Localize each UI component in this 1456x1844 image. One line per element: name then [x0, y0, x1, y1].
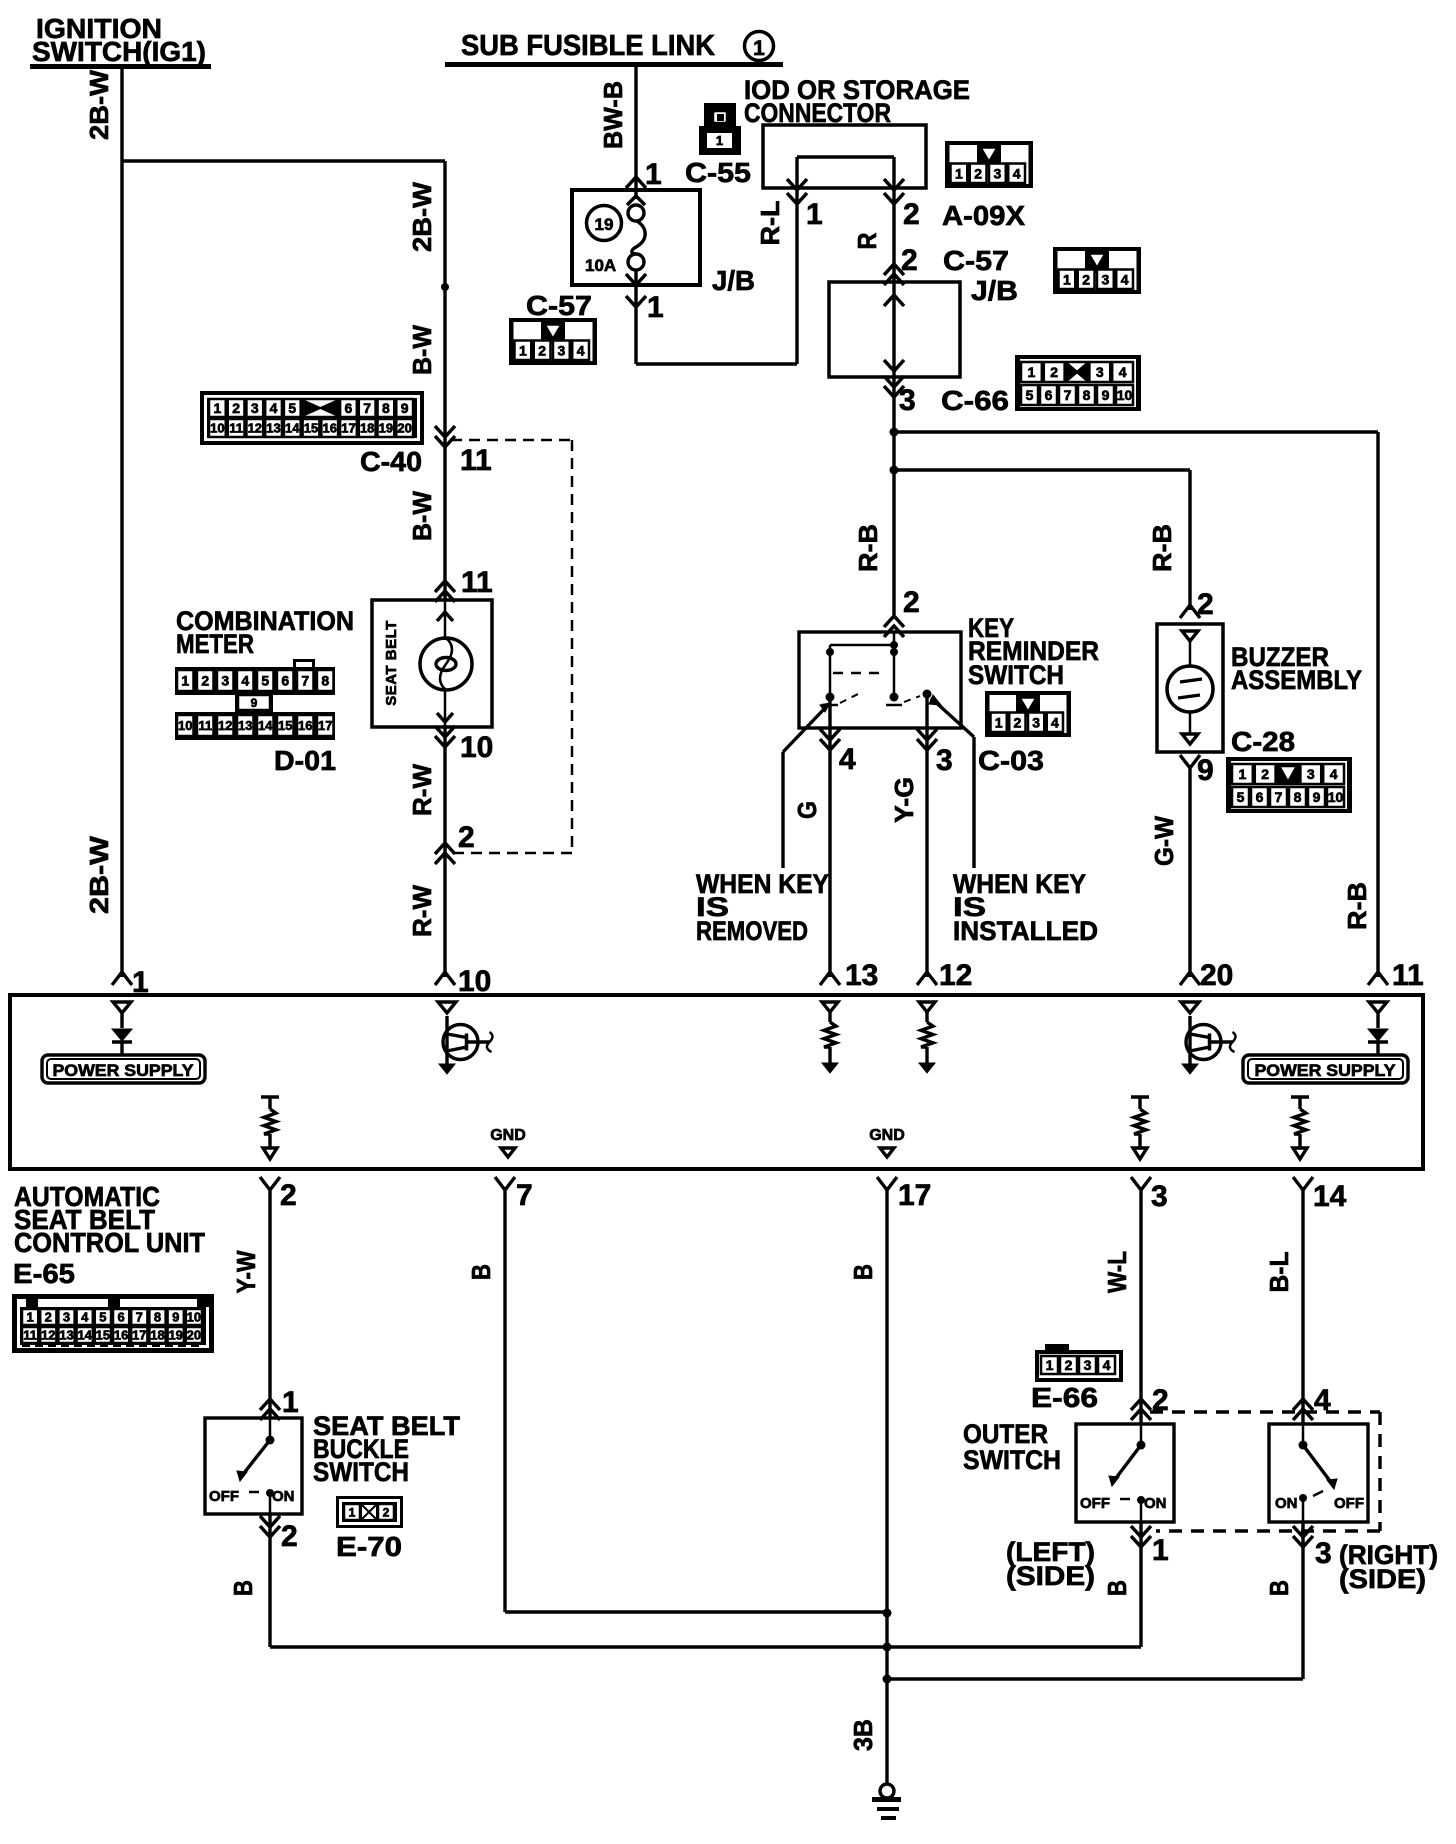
- svg-text:13: 13: [845, 959, 878, 992]
- svg-text:6: 6: [1045, 387, 1053, 403]
- svg-text:19: 19: [595, 215, 614, 234]
- svg-text:4: 4: [270, 400, 278, 416]
- svg-text:1: 1: [1028, 364, 1036, 380]
- svg-text:11: 11: [1392, 959, 1424, 992]
- wire label 2B-W (bottom): [84, 835, 114, 914]
- J/B fuse box: [572, 190, 700, 285]
- control unit pin 7 fork and wire B: [495, 1177, 888, 1612]
- svg-text:E-66: E-66: [1031, 1382, 1098, 1413]
- transistor inside control unit (right): [1181, 1002, 1236, 1074]
- svg-text:1: 1: [647, 291, 664, 324]
- svg-text:9: 9: [251, 696, 258, 710]
- wire label R-W (lower): [407, 885, 437, 937]
- dashed linkage between outer switches: [1150, 1412, 1380, 1531]
- svg-text:ON: ON: [1275, 1495, 1298, 1512]
- svg-text:BW-B: BW-B: [598, 81, 628, 149]
- svg-text:3: 3: [557, 342, 565, 358]
- wire label Y-G: [889, 777, 919, 823]
- wire label R: [852, 232, 882, 249]
- branch wire to buzzer R-B: [894, 470, 1190, 610]
- resistor pin 12 inside control unit: [919, 1002, 935, 1073]
- svg-text:1: 1: [753, 37, 765, 60]
- svg-text:11: 11: [460, 444, 492, 477]
- wire label 2B-W (top): [84, 70, 114, 140]
- svg-text:3: 3: [221, 673, 229, 689]
- wire label R-W (upper): [407, 764, 437, 816]
- svg-text:2B-W: 2B-W: [407, 182, 437, 252]
- svg-text:R-W: R-W: [407, 764, 437, 816]
- svg-text:10: 10: [178, 718, 192, 733]
- svg-text:3: 3: [1096, 364, 1104, 380]
- svg-text:SWITCH: SWITCH: [968, 660, 1064, 690]
- wire label R-B (right): [1342, 882, 1372, 930]
- wire label 3B: [848, 1719, 878, 1751]
- svg-text:GND: GND: [869, 1127, 905, 1144]
- terminal fork pin 13 into control unit: [820, 959, 878, 992]
- wire label R-L: [755, 200, 785, 245]
- svg-text:2: 2: [280, 1179, 297, 1212]
- svg-text:17: 17: [341, 421, 355, 436]
- svg-text:1: 1: [282, 1386, 299, 1419]
- connector C-66 designator: [941, 385, 1009, 416]
- svg-text:3B: 3B: [848, 1719, 878, 1751]
- connector C-55 designator: [685, 157, 751, 188]
- svg-text:C-28: C-28: [1231, 726, 1295, 757]
- wire label Y-W: [231, 1250, 261, 1293]
- left outer switch box: [1076, 1424, 1174, 1522]
- resistor pin 13 inside control unit: [822, 1002, 838, 1073]
- svg-text:SWITCH(IG1): SWITCH(IG1): [32, 36, 206, 67]
- resistor below power supply (left): [261, 1097, 279, 1159]
- svg-text:2: 2: [1082, 271, 1090, 287]
- connector E-70 designator: [336, 1531, 402, 1562]
- wire from right outer switch to ground wire: [887, 1677, 1303, 1680]
- C-40 crossing arrows pin 11: [435, 426, 492, 600]
- svg-text:B: B: [1264, 1580, 1294, 1596]
- svg-text:REMOVED: REMOVED: [696, 916, 808, 946]
- svg-text:B: B: [1102, 1580, 1132, 1596]
- svg-text:B-W: B-W: [407, 325, 437, 375]
- svg-text:10: 10: [187, 1310, 201, 1325]
- svg-text:C-57: C-57: [526, 290, 592, 321]
- svg-text:10A: 10A: [585, 256, 616, 275]
- svg-text:2: 2: [45, 1310, 52, 1325]
- wire label B (pin 17): [848, 1264, 878, 1280]
- control unit pin 2 fork and wire Y-W: [260, 1177, 297, 1398]
- svg-text:3: 3: [1307, 766, 1315, 782]
- svg-text:5: 5: [99, 1310, 106, 1325]
- wire label R-B (key reminder): [853, 524, 883, 572]
- left outer switch pin 2 arrows: [1131, 1384, 1169, 1424]
- svg-text:C-57: C-57: [943, 245, 1009, 276]
- sub fusible link label: [445, 30, 783, 67]
- svg-text:C-66: C-66: [941, 385, 1009, 416]
- arrow and pin 1 at J/B fuse top: [626, 158, 662, 205]
- svg-text:OFF: OFF: [209, 1488, 239, 1505]
- diode inside control unit (left): [112, 1002, 132, 1056]
- buzzer terminal fork pin 9 below box: [1180, 754, 1214, 977]
- svg-text:2: 2: [383, 1505, 390, 1519]
- svg-text:2: 2: [903, 198, 920, 231]
- svg-text:9: 9: [401, 400, 409, 416]
- key reminder switch internals: [822, 632, 932, 705]
- connector A-09X graphic: [945, 141, 1033, 188]
- wire label B-L: [1264, 1251, 1294, 1292]
- svg-text:3: 3: [1032, 714, 1040, 730]
- svg-text:3: 3: [63, 1310, 70, 1325]
- wire from buckle switch and left outer switch to ground wire: [270, 1645, 1141, 1648]
- svg-text:W-L: W-L: [1102, 1251, 1132, 1293]
- key reminder right wiper (when key installed): [929, 695, 974, 868]
- terminal fork pin 11 into control unit (right): [1368, 959, 1424, 992]
- svg-text:7: 7: [1064, 387, 1072, 403]
- svg-text:7: 7: [1275, 789, 1283, 805]
- svg-text:18: 18: [150, 1328, 164, 1343]
- key reminder switch box: [799, 632, 961, 728]
- buckle switch pin 1 arrows: [260, 1386, 299, 1420]
- pin 1 label of IOD connector: [806, 198, 823, 231]
- svg-text:11: 11: [23, 1328, 37, 1343]
- diode inside control unit (right): [1368, 1002, 1388, 1056]
- arrow and pin 1 at J/B fuse bottom: [626, 274, 664, 324]
- buckle switch pin 2 arrows: [260, 1514, 298, 1647]
- connector E-65 graphic: [12, 1294, 214, 1353]
- wire R-L from IOD box pin 1 down: [787, 157, 807, 364]
- svg-text:ASSEMBLY: ASSEMBLY: [1231, 665, 1362, 695]
- svg-text:8: 8: [1294, 789, 1302, 805]
- right outer switch pin 3 arrows: [1293, 1522, 1332, 1679]
- svg-text:12: 12: [939, 959, 972, 992]
- svg-text:20: 20: [397, 421, 411, 436]
- key reminder pin 4 wire down (G): [820, 700, 856, 977]
- arrow pin 2 into J/B (C-57): [884, 244, 918, 285]
- resistor above pin 14: [1291, 1097, 1309, 1159]
- pin 2 label of IOD connector: [903, 198, 920, 231]
- svg-text:2: 2: [903, 586, 920, 619]
- svg-text:11: 11: [198, 718, 212, 733]
- connector D-01 graphic: [175, 659, 335, 740]
- svg-text:12: 12: [218, 718, 232, 733]
- svg-text:1: 1: [1063, 271, 1071, 287]
- svg-text:1: 1: [716, 133, 723, 148]
- svg-text:7: 7: [301, 673, 309, 689]
- connector C-03 designator: [978, 745, 1044, 776]
- svg-text:1: 1: [181, 673, 189, 689]
- svg-text:20: 20: [187, 1328, 201, 1343]
- connector C-40 designator: [360, 446, 422, 477]
- svg-text:B: B: [466, 1264, 496, 1280]
- circled 1 after sub fusible link: [745, 32, 774, 61]
- GND label (left): [490, 1127, 526, 1157]
- svg-text:15: 15: [304, 421, 318, 436]
- svg-text:1: 1: [26, 1310, 33, 1325]
- svg-text:1: 1: [1239, 766, 1247, 782]
- svg-text:9: 9: [1197, 754, 1214, 787]
- J/B label for fuse box: [712, 265, 755, 296]
- connector C-66 graphic: [1015, 355, 1141, 411]
- svg-text:4: 4: [1103, 1357, 1111, 1373]
- svg-text:B-L: B-L: [1264, 1251, 1294, 1292]
- svg-text:5: 5: [1237, 789, 1245, 805]
- svg-text:B-W: B-W: [407, 491, 437, 541]
- svg-text:1: 1: [1046, 1357, 1054, 1373]
- wire 2B-W from ignition switch down to control unit pin 1: [120, 69, 123, 977]
- svg-text:16: 16: [298, 718, 312, 733]
- IOD or storage connector label: [744, 75, 970, 128]
- wire label G: [792, 801, 822, 819]
- svg-text:17: 17: [318, 718, 332, 733]
- combination meter label: [176, 606, 354, 659]
- automatic seat belt control unit label: [14, 1181, 205, 1258]
- svg-text:Y-W: Y-W: [231, 1250, 261, 1293]
- key reminder left wiper (when key removed): [783, 703, 830, 868]
- fuse number 19 circled: [587, 206, 622, 241]
- buzzer assembly label: [1231, 642, 1362, 695]
- svg-text:6: 6: [117, 1310, 124, 1325]
- svg-text:G: G: [792, 801, 822, 819]
- svg-text:9: 9: [1313, 789, 1321, 805]
- seat belt buckle switch box: [205, 1418, 302, 1514]
- junction wire from C-66 down with branches: [890, 428, 899, 616]
- buzzer assembly box: [1157, 624, 1223, 752]
- connector E-66 graphic: [1035, 1344, 1123, 1382]
- svg-text:2: 2: [1197, 588, 1214, 621]
- connector E-66 designator: [1031, 1382, 1098, 1413]
- connector E-70 graphic: [336, 1496, 403, 1528]
- connector A-09X designator: [942, 200, 1025, 231]
- svg-text:ON: ON: [272, 1488, 295, 1505]
- key reminder switch label: [968, 613, 1099, 690]
- IOD connector box: [763, 125, 926, 188]
- automatic seat belt control unit box E-65: [10, 995, 1423, 1169]
- svg-text:3: 3: [1084, 1357, 1092, 1373]
- key reminder pin 3 wire down (Y-G): [917, 694, 953, 977]
- J/B box 2: [829, 282, 960, 377]
- svg-text:G-W: G-W: [1149, 816, 1179, 866]
- svg-text:GND: GND: [490, 1127, 526, 1144]
- right outer switch internals: [1275, 1424, 1364, 1522]
- svg-text:8: 8: [382, 400, 390, 416]
- right outer switch box: [1269, 1424, 1368, 1522]
- svg-text:17: 17: [898, 1179, 931, 1212]
- svg-text:B: B: [848, 1264, 878, 1280]
- svg-text:1: 1: [519, 342, 527, 358]
- svg-text:12: 12: [41, 1328, 55, 1343]
- svg-text:6: 6: [1256, 789, 1264, 805]
- wire label R-B (buzzer): [1147, 524, 1177, 572]
- svg-text:B: B: [228, 1580, 258, 1596]
- buzzer terminal fork pin 2: [1180, 588, 1214, 621]
- svg-text:8: 8: [321, 673, 329, 689]
- control unit pin 14 fork and wire B-L: [1293, 1177, 1347, 1398]
- svg-text:14: 14: [77, 1328, 92, 1343]
- ignition switch (IG1) label: [30, 13, 211, 69]
- svg-text:4: 4: [1121, 271, 1129, 287]
- svg-text:2: 2: [232, 400, 240, 416]
- right outer switch pin 4 arrows: [1293, 1384, 1331, 1424]
- svg-text:OFF: OFF: [1080, 1495, 1110, 1512]
- wire label G-W: [1149, 816, 1179, 866]
- left outer switch internals: [1080, 1424, 1167, 1522]
- transistor inside control unit (left): [438, 1002, 493, 1074]
- wire label B (pin 7): [466, 1264, 496, 1280]
- svg-text:19: 19: [379, 421, 393, 436]
- terminal fork pin 1 into control unit: [112, 966, 149, 999]
- buzzer symbol: [1167, 631, 1213, 744]
- arrows pin 10 out of combination meter: [435, 726, 493, 977]
- svg-text:3: 3: [1315, 1537, 1332, 1570]
- wire R from IOD box pin 2 down to J/B: [884, 157, 904, 266]
- svg-text:4: 4: [1013, 165, 1021, 181]
- terminal fork pin 20 into control unit: [1180, 959, 1233, 992]
- svg-text:Y-G: Y-G: [889, 777, 919, 823]
- svg-text:R-L: R-L: [755, 200, 785, 245]
- right side note: [1339, 1540, 1438, 1594]
- buckle switch internals: [209, 1418, 295, 1514]
- connector C-57 designator (left): [526, 290, 592, 321]
- svg-text:4: 4: [839, 743, 856, 776]
- GND label (right): [869, 1127, 905, 1157]
- fuse rating 10A: [585, 256, 616, 275]
- svg-text:16: 16: [322, 421, 336, 436]
- control unit pin 3 fork and wire W-L: [1131, 1177, 1168, 1398]
- svg-text:SWITCH: SWITCH: [313, 1457, 409, 1487]
- svg-text:20: 20: [1200, 959, 1233, 992]
- svg-text:10: 10: [210, 421, 224, 436]
- svg-text:11: 11: [229, 421, 243, 436]
- dashed link from C-40 crossing to meter pin 2 crossing: [451, 440, 572, 853]
- wire through J/B box 2: [884, 282, 904, 377]
- svg-text:3: 3: [936, 744, 953, 777]
- svg-text:3: 3: [1151, 1180, 1168, 1213]
- svg-text:8: 8: [1083, 387, 1091, 403]
- svg-text:9: 9: [172, 1310, 179, 1325]
- svg-text:1: 1: [349, 1505, 356, 1519]
- when key is removed note: [696, 869, 829, 946]
- connector C-28 graphic: [1226, 757, 1352, 813]
- svg-text:16: 16: [114, 1328, 128, 1343]
- wire label W-L: [1102, 1251, 1132, 1293]
- svg-text:SWITCH: SWITCH: [963, 1445, 1061, 1475]
- svg-text:C-55: C-55: [685, 157, 751, 188]
- control unit pin 17 fork and wire B to ground: [877, 1177, 931, 1784]
- svg-text:4: 4: [1119, 364, 1127, 380]
- svg-text:ON: ON: [1144, 1495, 1167, 1512]
- svg-text:METER: METER: [176, 629, 254, 659]
- svg-text:OFF: OFF: [1334, 1495, 1364, 1512]
- lamp symbol: [420, 600, 472, 727]
- svg-text:13: 13: [59, 1328, 73, 1343]
- svg-text:5: 5: [1026, 387, 1034, 403]
- svg-text:1: 1: [1152, 1534, 1169, 1567]
- svg-text:4: 4: [1051, 714, 1059, 730]
- svg-text:3: 3: [993, 165, 1001, 181]
- svg-text:13: 13: [266, 421, 280, 436]
- svg-text:11: 11: [461, 566, 493, 599]
- svg-text:2: 2: [1013, 714, 1021, 730]
- outer switch label: [963, 1419, 1061, 1475]
- svg-text:C-03: C-03: [978, 745, 1044, 776]
- svg-text:2: 2: [1065, 1357, 1073, 1373]
- J/B label for box 2: [971, 275, 1018, 306]
- svg-text:14: 14: [285, 421, 300, 436]
- svg-text:(SIDE): (SIDE): [1006, 1561, 1095, 1591]
- svg-text:C-40: C-40: [360, 446, 422, 477]
- connector C-03 graphic: [985, 691, 1071, 737]
- connector C-28 designator: [1231, 726, 1295, 757]
- svg-text:10: 10: [1328, 789, 1344, 805]
- ground symbol: [872, 1784, 901, 1820]
- svg-text:SUB FUSIBLE LINK: SUB FUSIBLE LINK: [461, 30, 715, 62]
- key reminder switch pin 2 arrows: [884, 586, 920, 637]
- fuse element symbol: [628, 205, 645, 285]
- wire label B (right outer): [1264, 1580, 1294, 1596]
- svg-text:12: 12: [248, 421, 262, 436]
- svg-text:INSTALLED: INSTALLED: [953, 916, 1098, 946]
- svg-text:7: 7: [136, 1310, 143, 1325]
- svg-text:2: 2: [974, 165, 982, 181]
- junction dots on ground wire: [883, 1609, 892, 1684]
- svg-text:R: R: [852, 232, 882, 249]
- svg-text:8: 8: [154, 1310, 161, 1325]
- svg-text:3: 3: [1101, 271, 1109, 287]
- seat belt lamp rotated label: [383, 620, 400, 706]
- svg-text:5: 5: [288, 400, 296, 416]
- svg-text:1: 1: [955, 165, 963, 181]
- svg-text:1: 1: [995, 714, 1003, 730]
- svg-text:19: 19: [168, 1328, 182, 1343]
- arrows pin 11 into combination meter: [435, 566, 493, 602]
- svg-text:2: 2: [538, 342, 546, 358]
- wire branch 2B-W right then down (to combination meter): [122, 161, 449, 427]
- svg-text:4: 4: [1330, 766, 1338, 782]
- terminal fork pin 10 into control unit: [435, 965, 491, 998]
- svg-text:4: 4: [241, 673, 249, 689]
- svg-text:9: 9: [1102, 387, 1110, 403]
- svg-text:POWER SUPPLY: POWER SUPPLY: [53, 1061, 195, 1080]
- svg-text:CONTROL UNIT: CONTROL UNIT: [14, 1227, 205, 1258]
- svg-text:2B-W: 2B-W: [84, 70, 114, 140]
- svg-text:E-70: E-70: [336, 1531, 402, 1562]
- svg-text:6: 6: [281, 673, 289, 689]
- svg-text:4: 4: [577, 342, 585, 358]
- svg-text:14: 14: [1313, 1180, 1347, 1213]
- svg-text:15: 15: [278, 718, 292, 733]
- svg-text:5: 5: [261, 673, 269, 689]
- wire label B-W above C-40: [407, 325, 437, 375]
- svg-text:7: 7: [516, 1179, 533, 1212]
- branch wire to right R-B (power supply pin 11): [894, 432, 1378, 977]
- svg-text:R-B: R-B: [853, 524, 883, 572]
- seat belt warning lamp box: [372, 600, 492, 727]
- svg-text:2: 2: [458, 821, 475, 854]
- svg-text:2: 2: [1050, 364, 1058, 380]
- svg-text:A-09X: A-09X: [942, 200, 1025, 231]
- wire label B (buckle): [228, 1580, 258, 1596]
- svg-text:3: 3: [251, 400, 259, 416]
- svg-text:3: 3: [899, 384, 916, 417]
- svg-text:1: 1: [806, 198, 823, 231]
- seat belt buckle switch label: [313, 1411, 461, 1487]
- connector C-55 graphic: [699, 103, 741, 155]
- svg-text:14: 14: [258, 718, 273, 733]
- svg-text:R-W: R-W: [407, 885, 437, 937]
- arrow pin 3 out of J/B (C-66): [884, 376, 916, 432]
- svg-text:POWER SUPPLY: POWER SUPPLY: [1255, 1061, 1397, 1080]
- svg-text:2B-W: 2B-W: [84, 835, 114, 914]
- power supply label box (left): [42, 1055, 205, 1083]
- power supply label box (right): [1243, 1055, 1408, 1083]
